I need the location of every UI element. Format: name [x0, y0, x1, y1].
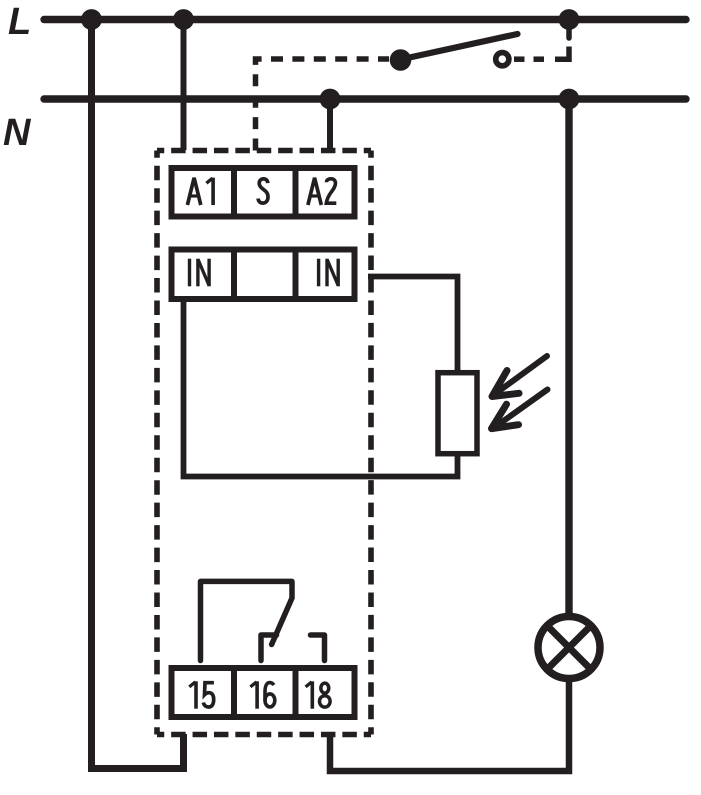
wire lamp to terminal 18 (bottom right run) [330, 679, 569, 771]
pin label 18 [306, 681, 331, 708]
light arrow 1 head [492, 371, 519, 397]
wire L to terminal 15 (left drop, bottom run, stub up) [92, 20, 184, 769]
pin label A2 [308, 178, 336, 205]
device U1 dashed enclosure bottom edge [157, 732, 371, 738]
lamp E1 cross stroke 2 [547, 626, 591, 670]
pin label IN right [319, 259, 339, 287]
switch S1 dashed link to L (stub at node) [566, 28, 572, 38]
light arrow 2 shaft [499, 390, 548, 425]
pin label IN left [190, 259, 210, 287]
svg-text:N: N [3, 112, 32, 154]
node junction L-mid [173, 9, 194, 30]
device U1 dashed enclosure right edge [368, 151, 374, 735]
switch S1 dashed link to L (dash b) [534, 56, 545, 62]
terminal block 15/16 divider [231, 665, 237, 720]
wire L to terminal A1 drop [181, 20, 187, 151]
node junction N-mid [320, 89, 341, 110]
switch S1 pivot node [390, 49, 412, 71]
wire N to terminal A2 drop [327, 99, 333, 150]
device U1 dashed enclosure top edge [157, 148, 371, 154]
node junction N-right [559, 89, 580, 110]
switch S1 dashed link to L (corner dash) [555, 47, 569, 60]
node junction L-left [81, 9, 102, 30]
node junction L-right [559, 9, 580, 30]
relay contact NO hook at terminal 18 [311, 635, 325, 661]
switch S1 dashed link to L (dash a) [514, 56, 525, 62]
svg-text:L: L [8, 1, 31, 43]
relay contact NC hook at terminal 16 [261, 635, 277, 661]
relay contact common arm from terminal 15 [201, 581, 293, 660]
terminal block IN row divider 1 [231, 247, 237, 303]
wire photoresistor bottom to IN left [184, 299, 458, 477]
wire IN right to photoresistor top [368, 277, 458, 372]
switch S1 lever [405, 34, 518, 59]
photoresistor R1 body [438, 373, 477, 454]
terminal block IN row divider 2 [293, 247, 299, 303]
switch S1 fixed contact (open circle) [496, 53, 509, 66]
wire N to lamp (right vertical) [565, 99, 572, 616]
terminal block 15 16 18 outline [172, 668, 355, 717]
light arrow 1 shaft [499, 356, 547, 391]
pin label A1 [187, 178, 213, 205]
device U1 dashed enclosure left edge [154, 151, 160, 735]
wire L supply line [44, 16, 686, 23]
terminal block A1 S A2 outline [172, 168, 355, 217]
terminal block S/A2 divider [293, 165, 299, 220]
lamp E1 cross stroke 1 [547, 626, 591, 670]
wire N supply line [44, 95, 686, 102]
pin label 15 [189, 681, 214, 708]
pin label S [258, 179, 268, 203]
terminal block A1/S divider [231, 165, 237, 220]
switch S1 dashed link from terminal S [256, 59, 390, 151]
terminal block 16/18 divider [293, 665, 299, 720]
lamp E1 body [538, 617, 600, 679]
pin label 16 [250, 681, 274, 708]
light arrow 2 head [492, 404, 519, 428]
terminal block IN IN outline [172, 250, 355, 300]
